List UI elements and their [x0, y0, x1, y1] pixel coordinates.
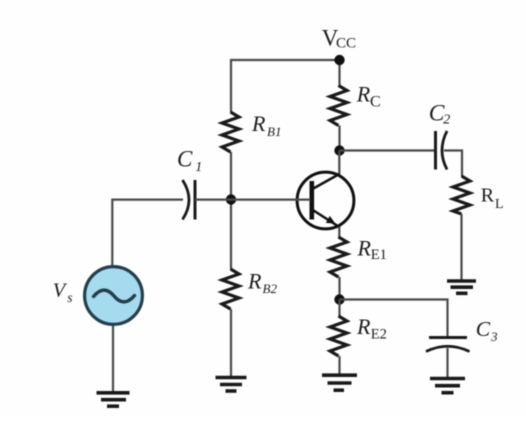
source Vs circle: [85, 267, 143, 325]
ground under C3: [430, 379, 465, 393]
wire emitter down to RE1: [338, 227, 340, 238]
transistor Q1 collector diagonal: [313, 174, 340, 189]
label C2: [429, 100, 451, 127]
svg-text:R: R: [481, 185, 495, 207]
resistor RL: [453, 176, 470, 214]
svg-text:E2: E2: [371, 327, 387, 343]
resistor RB2: [222, 269, 239, 309]
label RC: [356, 81, 381, 110]
wire RB1 bottom through base node to RB2 top: [230, 152, 232, 269]
label C3: [476, 317, 498, 344]
capacitor C1: [183, 180, 196, 220]
node collector junction dot: [334, 145, 344, 155]
wire collector node to C2 left plate: [340, 149, 436, 151]
svg-text:2: 2: [443, 112, 450, 127]
wire base node to transistor base: [231, 199, 311, 201]
resistor RC: [330, 86, 347, 126]
svg-text:3: 3: [490, 329, 498, 344]
wire collector vertical into transistor: [338, 151, 340, 175]
resistor RE1: [330, 237, 347, 277]
label VCC: [322, 25, 356, 51]
label RB1: [251, 111, 281, 139]
wire emitter node to C3 corner: [340, 300, 448, 337]
ground under RE2: [322, 375, 357, 390]
node emitter junction dot: [334, 294, 344, 304]
svg-text:C: C: [476, 317, 491, 341]
svg-text:B1: B1: [267, 124, 281, 139]
wire C3 bottom to ground: [446, 348, 448, 377]
wire RE1 bottom to emitter node: [338, 277, 340, 300]
svg-text:R: R: [247, 269, 262, 294]
wire RC bottom to collector node: [338, 126, 340, 152]
transistor Q1 base bar: [309, 181, 314, 220]
wire RL bottom to ground: [460, 214, 462, 280]
svg-text:R: R: [357, 235, 372, 260]
wire C1 right plate to base node: [195, 199, 231, 201]
svg-text:E1: E1: [371, 247, 387, 263]
wire input from Vs corner to C1 left plate: [112, 200, 183, 266]
label C1: [177, 147, 202, 176]
resistor RE2: [330, 316, 347, 356]
svg-text:R: R: [356, 314, 371, 339]
ground under RB2: [216, 378, 247, 392]
svg-text:C: C: [177, 147, 193, 172]
label RL: [481, 185, 504, 212]
wire RE2 bottom to ground: [338, 356, 340, 374]
wire C2 right plate to RL top corner: [444, 151, 462, 177]
ground under RL: [447, 281, 476, 293]
svg-text:R: R: [356, 81, 371, 106]
svg-text:CC: CC: [336, 36, 356, 52]
svg-text:s: s: [67, 290, 72, 305]
label Vs: [53, 280, 73, 305]
capacitor C2: [436, 131, 448, 170]
wire VCC node down to RC top: [338, 60, 340, 86]
transistor Q1 emitter diagonal with arrow: [313, 210, 340, 227]
svg-text:C: C: [429, 100, 445, 126]
label RE1: [357, 235, 387, 262]
label RB2: [247, 269, 277, 297]
svg-text:R: R: [251, 111, 266, 136]
resistor RB1: [222, 112, 239, 152]
svg-text:B2: B2: [263, 281, 278, 296]
source Vs sine wave: [94, 290, 135, 302]
wire Vs bottom to ground: [112, 326, 114, 393]
capacitor C3: [426, 338, 470, 352]
svg-text:C: C: [370, 94, 381, 111]
svg-text:L: L: [495, 197, 504, 212]
wire top rail from RB1 top to VCC node: [231, 60, 340, 112]
wire RB2 bottom to ground: [230, 309, 232, 376]
label RE2: [356, 314, 387, 342]
svg-text:1: 1: [195, 160, 202, 175]
node VCC junction dot: [334, 55, 344, 65]
wire emitter node down to RE2: [338, 300, 340, 317]
transistor Q1 circle: [297, 172, 354, 229]
node base junction dot: [226, 194, 236, 204]
ground under Vs: [97, 393, 130, 406]
